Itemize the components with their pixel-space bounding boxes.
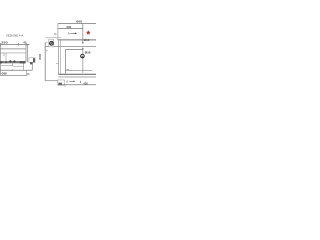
small dash above inner rebar <box>67 69 70 71</box>
slab bottom edge <box>45 46 96 48</box>
dim tick left <box>0 43 1 46</box>
slab upper edge left part <box>45 37 61 39</box>
tick below bottom dimension line <box>64 84 66 87</box>
tick after bottom arrow <box>80 81 82 83</box>
slab top thick edge <box>58 39 96 41</box>
up arrowhead for Ø16 bottom <box>82 47 84 49</box>
vertical extension line <box>44 43 46 81</box>
footing tick <box>12 69 14 71</box>
rebar blob 2 <box>5 61 7 63</box>
wall below vertical <box>31 62 33 70</box>
wall left face <box>25 44 27 62</box>
section arrow top <box>70 32 75 34</box>
rebar circle 2 <box>13 60 15 62</box>
top stub of extension <box>45 42 47 44</box>
slab second line <box>0 52 26 54</box>
bottom wall inner edge <box>58 76 96 78</box>
dimension line 300 <box>58 28 83 30</box>
L rebar vertical <box>65 50 67 74</box>
dim tick mid <box>18 43 20 46</box>
footing top line <box>0 69 32 71</box>
svg-text:SEZIONE A-A: SEZIONE A-A <box>6 34 24 38</box>
bar section circle wedge <box>81 56 84 58</box>
step line 1 <box>0 64 13 66</box>
extension line at wall <box>57 24 59 40</box>
smudge in label box <box>58 83 62 85</box>
L rebar horizontal <box>66 49 83 51</box>
step line 2 <box>13 65 24 67</box>
section arrow bottom <box>69 80 73 82</box>
column rebar symbol <box>50 41 54 45</box>
svg-text:330: 330 <box>1 41 8 45</box>
rebar circle 1 <box>9 60 11 62</box>
footing right vertical <box>26 70 28 75</box>
dimension line 600 <box>58 23 96 25</box>
wall face line 2 <box>59 40 61 74</box>
hatched slab bottom band <box>0 61 26 63</box>
wall face line 1 <box>57 40 59 74</box>
bottom wall thick edge <box>58 73 96 75</box>
svg-text:A: A <box>68 32 70 36</box>
svg-text:A: A <box>66 80 68 84</box>
svg-text:45: 45 <box>23 40 27 44</box>
small detail box <box>29 58 35 63</box>
left cut edge <box>0 44 1 75</box>
leader line for Ø16 top <box>82 24 84 43</box>
dimension line top of section <box>0 43 30 45</box>
svg-text:Ø20: Ø20 <box>2 72 8 76</box>
wall right face <box>26 44 28 62</box>
slab top edge <box>0 48 26 50</box>
arrowhead bottom <box>74 81 76 83</box>
rebar blob left <box>0 61 2 63</box>
column box in plan <box>49 40 54 47</box>
step vertical 2 <box>23 63 25 70</box>
footing bottom line <box>0 74 27 76</box>
arrowhead top <box>75 33 77 35</box>
column rebar slash <box>50 42 53 45</box>
leader line for Ø16 bottom <box>82 48 84 73</box>
dim tick right <box>26 43 28 45</box>
svg-text:Ø16: Ø16 <box>85 51 91 55</box>
inner rebar line <box>66 69 93 71</box>
small tick at wall base left view <box>56 63 59 65</box>
svg-text:600: 600 <box>76 19 82 23</box>
dark bar in detail box <box>33 58 35 62</box>
svg-text:330: 330 <box>38 54 42 60</box>
red star <box>86 31 90 35</box>
bar section circle <box>81 54 85 58</box>
bottom horizontal of extension <box>45 80 58 82</box>
leader arrowhead down <box>82 42 84 44</box>
bottom dimension line <box>58 84 96 86</box>
step vertical 1 <box>12 63 14 66</box>
dark blob below detail box <box>30 62 32 64</box>
leader for callout 2 <box>5 53 7 61</box>
break jog on extension line <box>46 50 47 52</box>
bottom label box <box>58 80 64 85</box>
rebar blob right <box>20 61 26 63</box>
